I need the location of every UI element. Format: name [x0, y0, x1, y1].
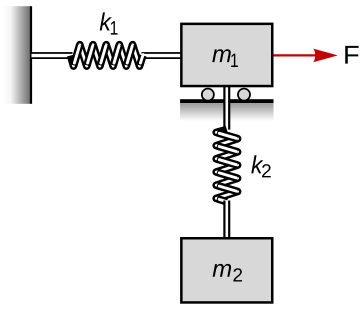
wire rod from mass m1 down through support [223, 86, 230, 130]
wire rod from spring k1 to mass m1 [142, 52, 182, 59]
label F [345, 46, 358, 64]
mass m1 box [181, 24, 272, 86]
roller right [238, 89, 250, 101]
roller left [202, 89, 214, 101]
ground support bar under rollers [180, 99, 273, 103]
wall shading [3, 6, 31, 104]
spring k1 [71, 45, 144, 66]
force arrow F line [274, 54, 321, 56]
wire rod from spring k2 to mass m2 [223, 201, 230, 239]
spring k2 (rotated copy) [216, 130, 237, 203]
ground shading [180, 103, 273, 123]
label k2 [251, 155, 270, 177]
wall line [30, 6, 32, 104]
mass m2 box [181, 238, 272, 302]
force arrow F head [313, 49, 338, 63]
label m1 [212, 49, 238, 67]
wire rod from wall to spring k1 [32, 52, 73, 59]
label k1 [100, 12, 118, 34]
label m2 [213, 264, 242, 282]
